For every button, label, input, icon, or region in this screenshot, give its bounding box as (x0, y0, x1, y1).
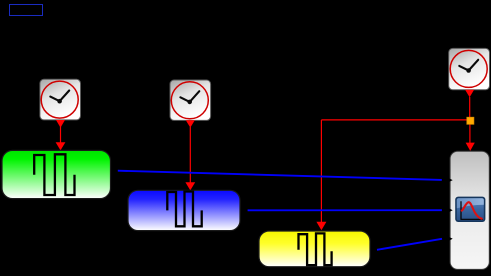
arrowhead into blue block (185, 182, 195, 190)
signal wire yellow -> scope in3 (377, 239, 442, 250)
scope icon (455, 197, 485, 222)
event wire down to yellow (320, 120, 322, 223)
square generator GEN1 (green) (2, 150, 111, 198)
clock block U2 (170, 80, 211, 120)
clock block U1 (40, 79, 81, 120)
clock U2 output port (186, 120, 195, 127)
square generator GEN2 (blue) (128, 190, 240, 230)
clock block U3 (449, 48, 490, 89)
scope block (450, 151, 489, 269)
event wire junction left branch (321, 119, 469, 121)
scope input port 2 (449, 208, 453, 212)
square generator GEN3 (yellow) (259, 231, 370, 267)
event wire clock U2 -> blue (189, 127, 191, 183)
signal wire green -> scope in1 (118, 171, 442, 180)
junction link point (467, 117, 474, 124)
clock U3 output port (465, 90, 474, 97)
arrowhead into yellow block (316, 222, 326, 230)
event wire clock U1 -> green (60, 126, 62, 143)
scope input port 3 (449, 237, 453, 241)
event wire clock U3 down to junction (469, 97, 471, 117)
signal wire blue -> scope in2 (248, 209, 442, 211)
ghost label frame (top-left) (10, 5, 43, 16)
arrowhead into green block (56, 142, 66, 150)
clock U1 output port (56, 120, 65, 128)
scope input port 1 (449, 178, 453, 182)
event wire junction down to scope (469, 124, 471, 144)
arrowhead into scope event input (466, 143, 475, 151)
